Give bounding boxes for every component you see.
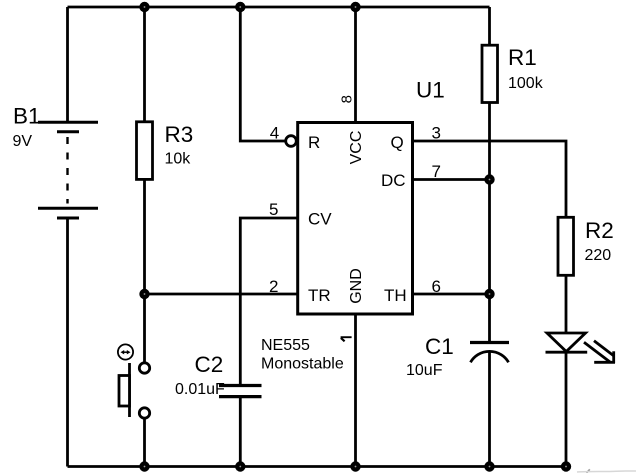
svg-text:R1: R1 [508,45,537,70]
svg-text:6: 6 [432,277,441,296]
svg-text:7: 7 [432,162,441,181]
svg-text:5: 5 [269,200,278,219]
svg-text:9V: 9V [13,133,33,150]
svg-text:8: 8 [339,95,356,103]
svg-text:VCC: VCC [348,131,365,165]
svg-text:10k: 10k [165,151,192,168]
svg-text:C2: C2 [195,352,224,377]
svg-text:TR: TR [308,286,331,305]
svg-text:3: 3 [432,124,441,143]
svg-text:R: R [308,133,320,152]
svg-text:CV: CV [308,210,332,229]
svg-text:NE555: NE555 [261,337,310,354]
svg-text:DC: DC [381,171,406,190]
svg-text:0.01uF: 0.01uF [175,381,225,398]
svg-text:4: 4 [270,124,279,143]
svg-text:Q: Q [391,133,404,152]
svg-text:C1: C1 [425,334,454,359]
svg-text:100k: 100k [508,75,544,92]
svg-text:R3: R3 [165,122,194,147]
svg-text:220: 220 [585,247,612,264]
svg-text:R2: R2 [585,218,614,243]
svg-text:U1: U1 [416,78,445,103]
svg-text:TH: TH [384,286,407,305]
svg-text:2: 2 [269,277,278,296]
svg-text:10uF: 10uF [406,362,443,379]
svg-text:GND: GND [348,268,365,304]
svg-text:Monostable: Monostable [261,356,344,373]
svg-text:B1: B1 [13,104,41,129]
